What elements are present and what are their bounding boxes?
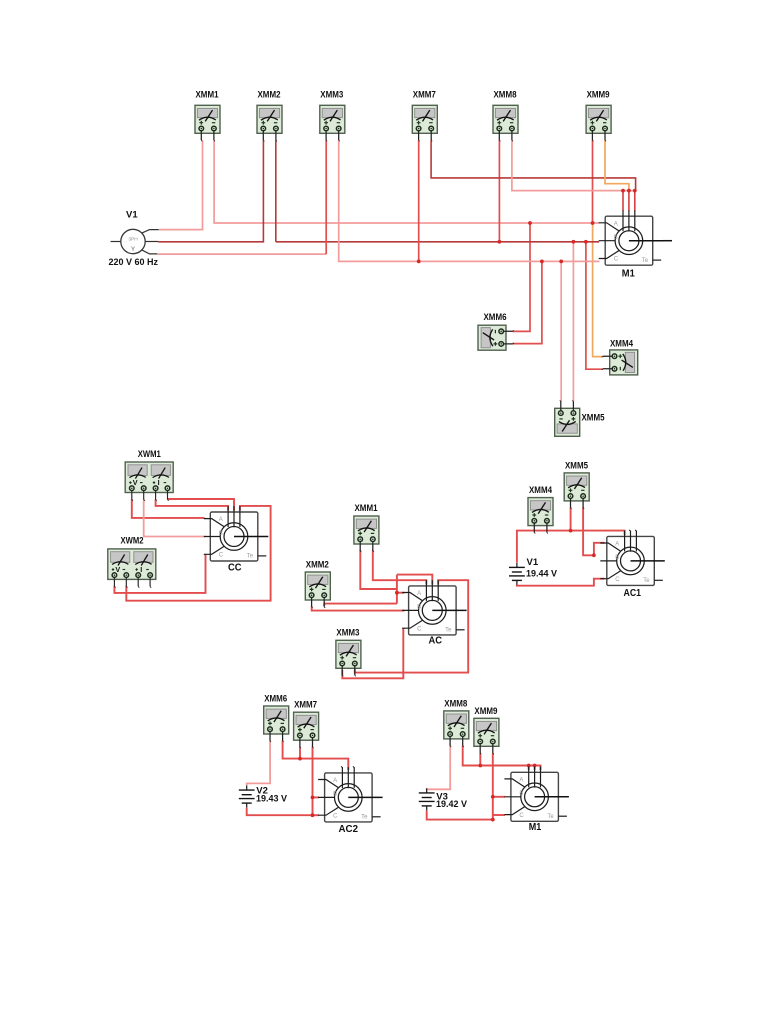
junction M1 terminal B	[491, 795, 495, 799]
wire XWM2 V+ to motor CC terminal C	[114, 554, 205, 593]
svg-text:XMM2: XMM2	[258, 90, 281, 101]
multimeter XMM4 (rotated)	[602, 350, 638, 375]
wattmeter XWM1	[125, 462, 173, 501]
junction C bus XMM6 tap	[540, 260, 544, 264]
wattmeter XWM2	[108, 549, 156, 588]
svg-text:XMM9: XMM9	[587, 90, 610, 101]
motor CC	[204, 506, 268, 561]
AC1 pin hooks	[629, 530, 636, 531]
wire XMM1 minus to AC pin 1	[373, 550, 427, 585]
wire XMM8 plus to battery V3 plus	[427, 746, 451, 790]
svg-text:XMM4: XMM4	[529, 485, 553, 496]
svg-text:Y: Y	[131, 247, 135, 253]
junction bus XMM5 plus	[569, 529, 573, 533]
multimeter XMM7	[412, 105, 437, 141]
junction node A	[395, 591, 399, 595]
wire branch to motor M1 terminal C	[493, 814, 505, 816]
multimeter XMM5 (rotated 180)	[555, 400, 580, 436]
wire XMM7 plus to node	[299, 747, 301, 759]
wire A bus tap to XMM6 top terminal	[513, 223, 531, 331]
svg-text:XMM5: XMM5	[582, 413, 606, 424]
svg-text:XWM2: XWM2	[121, 536, 144, 547]
wire XMM3 plus vertical	[325, 140, 327, 254]
svg-text:CC: CC	[228, 563, 242, 574]
wire XMM3 minus to motor M1 terminal C (C bus)	[339, 140, 600, 261]
wire M1 pin 1 stub	[528, 766, 530, 771]
junction B bus XMM5 tap	[572, 240, 576, 244]
wire C bus tap down to XMM5 left terminal	[560, 261, 562, 401]
wire XMM6 plus to battery V2 plus	[247, 740, 270, 785]
svg-text:AC1: AC1	[624, 588, 642, 599]
multimeter XMM2	[257, 105, 282, 141]
wire branch to motor AC2 terminal C	[313, 814, 320, 816]
multimeter XMM1 (AC)	[354, 516, 379, 552]
wire XMM1 plus to node A	[360, 550, 397, 589]
wire V1 phase B to XMM2 plus	[158, 140, 263, 242]
wire XWM1 V- to motor CC terminal B	[144, 499, 206, 536]
AC2 pin hooks	[341, 766, 354, 767]
motor M1	[599, 210, 664, 265]
svg-text:XWM1: XWM1	[138, 449, 162, 460]
svg-text:M1: M1	[622, 269, 635, 280]
junction terminal C node	[311, 813, 315, 817]
wire XMM8 plus down to B bus	[498, 140, 500, 242]
wire B bus tap down to XMM5 right terminal	[572, 242, 574, 402]
svg-text:XMM2: XMM2	[306, 559, 329, 570]
wire XMM2 minus down to B bus	[275, 140, 277, 242]
junction node A AC1	[592, 553, 596, 557]
wire B bus tap to XMM4 minus	[586, 242, 603, 369]
multimeter XMM6 (AC2)	[264, 706, 289, 742]
junction XMM9 plus bus	[478, 764, 482, 768]
wire XMM6 minus to AC2 pin 2	[283, 740, 349, 770]
svg-text:XMM1: XMM1	[355, 503, 379, 514]
junction battery V3 minus	[491, 818, 495, 822]
svg-text:19.43 V: 19.43 V	[256, 794, 288, 804]
junction terminal B node	[311, 796, 315, 800]
wire XMM7 minus to motor pin 3	[431, 140, 635, 190]
svg-text:V1: V1	[126, 210, 138, 221]
multimeter XMM2 (AC)	[305, 572, 330, 608]
wire V1 phase C to XMM3 plus	[157, 253, 326, 255]
wire XMM7 minus down to battery V2 minus	[247, 747, 313, 815]
multimeter XMM8 (M1)	[444, 711, 469, 747]
motor AC	[402, 580, 467, 635]
junction motor pin 1	[621, 189, 625, 193]
wire C bus tap to XMM6 bottom terminal	[513, 261, 542, 343]
wire XWM1 I+ to CC pin 1	[156, 499, 229, 510]
wire XMM5 plus to bus	[570, 507, 572, 530]
battery V2	[239, 786, 255, 808]
svg-text:XMM4: XMM4	[610, 339, 634, 350]
multimeter XMM1	[195, 105, 220, 141]
wire B bus to motor M1 terminal B	[276, 241, 599, 243]
multimeter XMM3	[320, 105, 345, 141]
junction XMM7 plus node	[298, 757, 302, 761]
wire orange A net down to XMM4 plus	[593, 223, 604, 357]
wire XMM7 plus down to C bus	[418, 140, 420, 261]
junction C bus XMM5 tap	[559, 260, 563, 264]
shaft extension M1	[663, 240, 672, 242]
multimeter XMM5 (AC1)	[564, 473, 589, 509]
svg-text:XMM7: XMM7	[294, 700, 317, 711]
wire XMM9 minus down right side	[492, 753, 494, 815]
junction A bus motor A	[591, 221, 595, 225]
wire branch to motor AC2 terminal B	[313, 796, 320, 798]
svg-text:AC: AC	[429, 636, 443, 647]
wire XMM2 minus to node A	[324, 604, 397, 607]
wire to battery V3 minus	[427, 810, 493, 819]
svg-text:XMM1: XMM1	[196, 90, 220, 101]
svg-text:XMM3: XMM3	[320, 90, 343, 101]
svg-text:XMM3: XMM3	[336, 627, 359, 638]
svg-text:3PH: 3PH	[128, 236, 138, 242]
motor AC2	[318, 767, 383, 822]
wire XMM1 minus to motor M1 terminal A (A bus)	[214, 140, 599, 223]
svg-text:AC2: AC2	[339, 824, 359, 835]
junction A bus XMM6 tap	[528, 221, 532, 225]
svg-text:XMM5: XMM5	[565, 460, 589, 471]
svg-text:V1: V1	[527, 557, 539, 568]
junction B bus XMM4 tap	[584, 240, 588, 244]
svg-text:XMM6: XMM6	[264, 694, 287, 705]
multimeter XMM3 (AC)	[336, 640, 361, 676]
multimeter XMM8	[493, 105, 518, 141]
junction motor pin 2	[627, 189, 631, 193]
svg-text:XMM8: XMM8	[444, 699, 467, 710]
wire XWM1 V+ to motor CC terminal A	[132, 499, 205, 518]
svg-text:M1: M1	[529, 822, 542, 833]
multimeter XMM6 (rotated)	[478, 325, 514, 350]
svg-text:19.42 V: 19.42 V	[436, 799, 468, 809]
wire XMM8 minus bus to M1 pin 3	[463, 746, 541, 771]
motor AC1	[600, 531, 665, 586]
multimeter XMM7 (AC2)	[294, 712, 319, 748]
battery V1	[509, 563, 525, 585]
motor M1 (bottom)	[504, 767, 569, 822]
wire battery V1 minus to motor AC1 terminal C	[517, 579, 605, 586]
wire orange XMM9 minus to motor pin 2	[605, 140, 629, 190]
svg-text:XMM7: XMM7	[413, 90, 436, 101]
3-phase source V1	[111, 229, 159, 254]
wire jumper vertical at node A	[396, 575, 398, 604]
wire jumper to AC pin 2	[397, 575, 432, 585]
wire battery V1 plus bus to AC1 pin 1	[517, 531, 625, 563]
battery V3	[419, 788, 435, 810]
svg-text:XMM6: XMM6	[484, 312, 507, 323]
wire AC pin 3 loop to XMM3 minus	[355, 580, 468, 672]
svg-text:19.44 V: 19.44 V	[526, 568, 558, 578]
multimeter XMM4 (AC1)	[528, 498, 553, 534]
wire node A to motor AC terminal A	[397, 592, 405, 594]
wire CC pin 3 loop to XWM2	[126, 506, 270, 601]
wire XMM9 plus to bus	[479, 753, 481, 766]
wire XMM8 minus to motor pin 1	[512, 140, 635, 190]
wire branch to motor M1 terminal B	[493, 796, 505, 798]
wire V1 phase A to XMM1 plus	[159, 140, 203, 229]
wire XMM5 minus to motor AC1 terminal A	[583, 507, 604, 555]
junction B bus XMM8	[498, 240, 502, 244]
svg-text:220 V 60 Hz: 220 V 60 Hz	[109, 257, 159, 267]
junction C bus XMM7	[417, 260, 421, 264]
multimeter XMM9 (M1)	[474, 718, 499, 754]
wire XWM1 I- to CC pin 2	[168, 499, 235, 511]
junction M1 pin 1	[527, 764, 531, 768]
wire motor pin stubs	[623, 191, 635, 211]
wire XMM3 plus to motor AC terminal C	[342, 628, 403, 678]
svg-text:XMM8: XMM8	[494, 90, 517, 101]
junction M1 pin 2	[533, 764, 537, 768]
wire XMM9 plus down to A bus	[592, 140, 594, 223]
svg-text:XMM9: XMM9	[474, 706, 497, 717]
junction motor pin 3	[633, 189, 637, 193]
multimeter XMM9	[586, 105, 611, 141]
wire XMM2 plus to motor AC terminal B	[312, 606, 405, 610]
wire M1 pin 2 stub	[534, 766, 536, 771]
